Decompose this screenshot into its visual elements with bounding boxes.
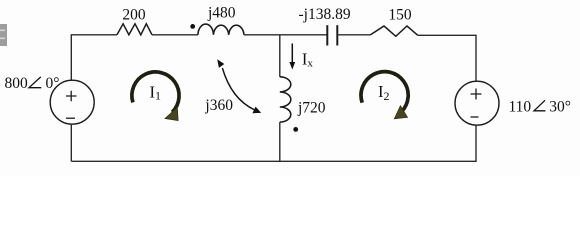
svg-text:-j138.89: -j138.89 [299, 6, 351, 23]
middle branch upper wire (node to inductor j720) [279, 35, 281, 77]
svg-text:800: 800 [5, 75, 29, 92]
label 800 angle 0deg [5, 75, 60, 92]
svg-text:200: 200 [122, 6, 146, 23]
svg-text:30°: 30° [549, 99, 571, 116]
dot marker (j720 bottom) [293, 127, 298, 132]
voltage source V1 800&#x2220;0&#xB0; [50, 80, 94, 124]
wire source V1 bottom to bottom-left corner [70, 124, 72, 162]
mesh current arrow I2 [361, 72, 408, 119]
wire resistor 150 to right corner, right vertical down to source [418, 35, 476, 81]
wire between resistor 200 and inductor j480 [152, 34, 198, 36]
resistor 150 [371, 26, 418, 36]
resistor 200 [117, 24, 152, 35]
right vertical below source + bottom wire [71, 125, 476, 162]
mutual inductance arrow j360 [217, 59, 261, 113]
wire inductor to capacitor (through node) [244, 34, 327, 36]
current arrow Ix [289, 44, 295, 70]
svg-text:j360: j360 [204, 97, 233, 114]
capacitor -j138.89 [327, 25, 337, 45]
mesh current arrow I1 [132, 72, 179, 121]
svg-text:0°: 0° [46, 75, 60, 92]
middle branch lower wire [279, 122, 281, 161]
dot marker (j480 left) [190, 24, 195, 29]
wire capacitor to resistor 150 [337, 34, 370, 36]
svg-text:110: 110 [509, 99, 532, 116]
voltage source V2 110&#x2220;30&#xB0; [455, 81, 499, 125]
svg-text:150: 150 [388, 6, 412, 23]
inductor j480 [198, 24, 244, 35]
svg-text:j720: j720 [297, 100, 326, 117]
svg-text:j480: j480 [207, 5, 236, 22]
inductor j720 [280, 77, 291, 122]
grey UI tab [0, 24, 7, 46]
wire top-left horizontal + left vertical [71, 35, 117, 81]
label 110 angle 30deg [509, 99, 572, 116]
